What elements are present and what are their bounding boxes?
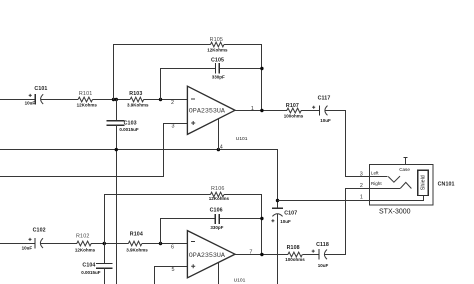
capacitor C117 10uF polarized	[312, 96, 331, 124]
svg-text:C101: C101	[34, 86, 47, 92]
wire R105 feedback top horizontal	[113, 44, 211, 46]
svg-text:12Kohms: 12Kohms	[75, 247, 96, 252]
wire C106 right horizontal	[219, 218, 262, 220]
resistor R102 12Kohms	[75, 233, 96, 252]
wire op-amp pin 5	[154, 266, 187, 268]
svg-text:C118: C118	[316, 242, 329, 248]
capacitor C101 10uF polarized	[25, 86, 48, 106]
svg-text:0.0015uF: 0.0015uF	[119, 127, 139, 132]
svg-text:330pF: 330pF	[212, 74, 225, 79]
svg-text:1: 1	[360, 195, 363, 201]
wire down to connector pin 3 level	[345, 110, 347, 177]
capacitor C104 0.0015uF	[81, 263, 112, 275]
junction output 2 to feedback	[260, 253, 263, 256]
wire C101 to R101	[41, 99, 79, 101]
wire R103 to op-amp pin 2	[144, 99, 188, 101]
op-amp U101A OPA2353UA	[187, 86, 235, 134]
junction node A feedback	[112, 98, 115, 101]
wire feedback right vertical to output 2	[261, 194, 263, 255]
svg-text:U101: U101	[236, 136, 248, 142]
wire left input channel 2	[0, 243, 35, 245]
svg-text:R104: R104	[130, 232, 143, 238]
svg-text:R103: R103	[129, 91, 142, 97]
junction C105 branch on pin 2 wire	[159, 98, 162, 101]
svg-text:4: 4	[220, 144, 223, 150]
wire VCOM net to left edge	[0, 176, 164, 178]
capacitor C103 0.0015uF	[107, 120, 139, 132]
svg-text:Case: Case	[399, 167, 410, 172]
wire C105 right horizontal	[219, 68, 262, 70]
capacitor C118 10uF polarized	[312, 242, 329, 268]
svg-text:C107: C107	[284, 210, 297, 216]
wire R101 to R103 through node A	[93, 99, 131, 101]
op-amp U101B OPA2353UA	[187, 231, 235, 278]
wire op-amp B power pin down to bottom edge	[218, 263, 220, 284]
svg-text:Left: Left	[371, 171, 379, 176]
svg-text:R107: R107	[286, 103, 299, 109]
wire C117 right to corner	[325, 110, 346, 112]
svg-text:12Kohms: 12Kohms	[207, 48, 228, 53]
capacitor C106 330pF	[210, 208, 224, 230]
junction node B	[103, 242, 106, 245]
svg-text:0.0015uF: 0.0015uF	[81, 270, 101, 275]
svg-text:330pF: 330pF	[210, 225, 223, 230]
svg-text:C102: C102	[33, 227, 46, 233]
wire op-amp pin 4 vertical	[218, 119, 220, 150]
svg-text:C104: C104	[82, 263, 95, 269]
svg-text:12Kohms: 12Kohms	[209, 196, 230, 201]
wire C104 down to bottom edge	[104, 268, 106, 284]
resistor R105 12Kohms	[207, 37, 228, 53]
svg-text:OPA2353UA: OPA2353UA	[189, 108, 226, 116]
wire left input channel 1	[0, 99, 35, 101]
wire op-amp output pin 1	[235, 110, 287, 112]
svg-text:R101: R101	[79, 91, 93, 97]
svg-text:Shield: Shield	[421, 175, 427, 190]
wire node B down to C104	[104, 243, 106, 264]
junction node A to C103	[115, 98, 118, 101]
svg-text:100ohms: 100ohms	[285, 257, 305, 262]
svg-text:R106: R106	[211, 186, 225, 192]
wire pin 5 vertical down to bottom edge	[154, 266, 156, 284]
svg-text:3: 3	[172, 124, 175, 130]
svg-text:R105: R105	[210, 37, 224, 43]
svg-text:7: 7	[249, 249, 252, 255]
junction shield wire on C107 vertical	[276, 199, 279, 202]
wire to connector pin 1 shield	[278, 200, 424, 202]
junction pin 4 to rail	[217, 148, 220, 151]
wire op-amp pin 3	[164, 123, 188, 125]
wire C105 left horizontal	[160, 68, 216, 70]
svg-text:STX-3000: STX-3000	[379, 208, 411, 215]
wire to connector pin 3 Left	[346, 176, 388, 178]
svg-text:2: 2	[171, 100, 174, 106]
capacitor C107 10uF polarized	[271, 208, 297, 224]
junction output to feedback	[260, 109, 263, 112]
wire R106 feedback branch vertical from node B	[104, 194, 106, 244]
resistor R101 12Kohms	[77, 91, 98, 107]
wire R106 feedback horizontal	[104, 194, 211, 196]
wire to connector pin 2 Right	[345, 188, 400, 190]
wire pin 3 vertical down	[163, 123, 165, 177]
svg-text:5: 5	[172, 267, 175, 273]
svg-text:C105: C105	[211, 58, 224, 64]
svg-text:3.9Kohms: 3.9Kohms	[126, 247, 148, 252]
wire node A down to C103	[116, 99, 118, 121]
svg-text:C103: C103	[124, 120, 137, 126]
svg-text:3.9Kohms: 3.9Kohms	[127, 102, 149, 107]
svg-text:Right: Right	[371, 181, 382, 186]
svg-text:2: 2	[360, 183, 363, 189]
svg-text:C117: C117	[318, 96, 331, 102]
svg-text:U101: U101	[234, 277, 246, 283]
svg-text:R102: R102	[76, 233, 90, 239]
wire C105 branch vertical	[160, 68, 162, 100]
wire R102 to R104 through node B	[91, 243, 128, 245]
wire C103 down through rail to bottom edge	[116, 125, 118, 284]
wire R104 to op-amp pin 6	[142, 243, 188, 245]
wire up to connector pin 2 level	[345, 188, 347, 255]
junction C106 to feedback vertical	[260, 217, 263, 220]
svg-text:CN101: CN101	[438, 181, 455, 187]
junction C106 branch on pin 6 wire	[159, 242, 162, 245]
svg-text:10uF: 10uF	[25, 101, 36, 106]
connector CN101 box	[370, 164, 434, 205]
junction C103 branch to rail	[115, 148, 118, 151]
svg-text:3: 3	[360, 172, 363, 178]
wire R108 to C118	[302, 254, 319, 256]
wire C107 down to bottom edge	[277, 214, 279, 284]
svg-text:1: 1	[251, 106, 254, 112]
capacitor C105 330pF	[211, 58, 225, 80]
resistor R106 12Kohms	[209, 186, 230, 201]
capacitor C102 10uF polarized	[22, 227, 46, 250]
wire C106 branch vertical	[160, 218, 162, 244]
shield terminal box	[418, 170, 429, 195]
svg-text:C106: C106	[210, 208, 223, 214]
wire R106 to right feedback vertical	[224, 194, 262, 196]
svg-text:12Kohms: 12Kohms	[77, 102, 98, 107]
wire feedback right vertical to output	[261, 44, 263, 111]
jack right contact	[400, 182, 411, 188]
wire R105 to right feedback vertical	[224, 44, 262, 46]
wire R105 feedback branch vertical from node A	[113, 44, 115, 100]
resistor R107 100ohms	[284, 103, 304, 119]
svg-text:10uF: 10uF	[318, 263, 329, 268]
resistor R104 3.9Kohms	[126, 232, 148, 253]
wire rail down to C107	[277, 149, 279, 209]
svg-text:6: 6	[171, 244, 174, 250]
svg-text:100ohms: 100ohms	[284, 114, 304, 119]
svg-text:10uF: 10uF	[280, 219, 291, 224]
wire R107 to C117	[301, 110, 319, 112]
svg-text:OPA2353UA: OPA2353UA	[189, 252, 226, 260]
case pin stub	[404, 157, 408, 159]
resistor R103 3.9Kohms	[127, 91, 149, 107]
wire ground rail horizontal	[0, 149, 278, 151]
jack left contact	[388, 176, 400, 182]
svg-text:R108: R108	[287, 245, 300, 251]
resistor R108 100ohms	[285, 245, 305, 262]
wire op-amp output pin 7	[235, 254, 288, 256]
wire C102 to R102	[40, 243, 76, 245]
wire C106 left horizontal	[160, 218, 215, 220]
junction C105 to feedback vertical	[260, 67, 263, 70]
wire C118 right to corner	[324, 254, 346, 256]
svg-text:10uF: 10uF	[22, 246, 33, 251]
svg-text:10uF: 10uF	[320, 118, 331, 123]
